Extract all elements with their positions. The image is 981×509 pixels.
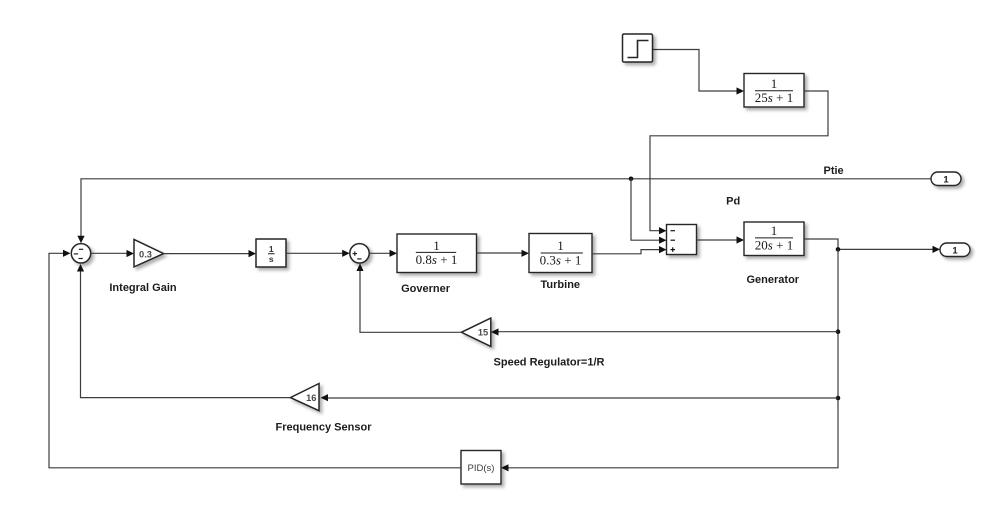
svg-text:Speed Regulator=1/R: Speed Regulator=1/R [494, 357, 605, 369]
svg-text:Ptie: Ptie [824, 165, 844, 177]
gain 0.3 Integral Gain [134, 239, 164, 267]
wire turbine to sum S3 plus port [592, 246, 667, 254]
wire gain 0.3 to integrator [164, 250, 256, 257]
svg-text:Governer: Governer [401, 283, 451, 295]
svg-text:1: 1 [771, 76, 778, 91]
wire integrator to sum S2 [286, 250, 350, 257]
wire generator to output oval 2 [804, 239, 940, 253]
output port Ptie oval 1 [931, 172, 961, 186]
label Governer [401, 283, 451, 295]
wire sum S1 to gain 0.3 [91, 250, 134, 257]
wire PID output to sum S1 left [49, 250, 461, 468]
svg-text:Frequency Sensor: Frequency Sensor [276, 422, 373, 434]
wire sum S3 to generator [697, 236, 745, 243]
wire Ptie line [77, 179, 931, 243]
svg-text:15: 15 [478, 328, 488, 338]
wire feedback vertical from generator output [501, 249, 838, 471]
sum junction S2 [350, 244, 369, 263]
label Generator [747, 274, 800, 286]
svg-text:1: 1 [433, 238, 440, 253]
label Frequency Sensor [276, 422, 373, 434]
svg-text:25s + 1: 25s + 1 [755, 90, 793, 105]
PID controller block [461, 451, 501, 485]
wire gain 16 to sum S1 bottom [77, 264, 291, 398]
svg-text:1: 1 [952, 246, 958, 257]
transfer function generator 1/(20s+1) [744, 222, 804, 256]
sum junction S1 [71, 244, 90, 263]
svg-text:0.3s + 1: 0.3s + 1 [540, 252, 582, 267]
label Turbine [541, 279, 581, 291]
gain 15 Speed Regulator [461, 318, 490, 346]
wire 25s+1 to sum top port [650, 91, 828, 234]
svg-text:PID(s): PID(s) [468, 463, 495, 474]
sum block S3 (rect with - - +) [667, 225, 697, 255]
node junction on Ptie line [629, 177, 634, 182]
gain 16 Frequency Sensor [290, 384, 319, 411]
wire step to 25s+1 [653, 50, 745, 95]
label Ptie [824, 165, 844, 177]
svg-text:s: s [269, 254, 274, 264]
node junction generator output [836, 247, 841, 252]
svg-text:1: 1 [771, 223, 778, 238]
transfer function governor 1/(0.8s+1) [397, 234, 477, 273]
wire Ptie junction to sum middle port [631, 179, 667, 244]
svg-text:1: 1 [269, 244, 274, 254]
svg-text:Generator: Generator [747, 274, 800, 286]
svg-text:Integral Gain: Integral Gain [109, 282, 177, 294]
wire to gain 15 [491, 328, 838, 335]
step source [623, 34, 653, 62]
transfer function turbine 1/(0.3s+1) [529, 234, 592, 273]
svg-text:20s + 1: 20s + 1 [755, 238, 793, 253]
svg-text:Pd: Pd [726, 196, 740, 208]
svg-text:0.8s + 1: 0.8s + 1 [416, 252, 458, 267]
output port oval 2 [940, 243, 970, 257]
svg-text:16: 16 [306, 393, 316, 403]
wire governor to turbine [477, 250, 530, 257]
label Integral Gain [109, 282, 177, 294]
label Pd [726, 196, 740, 208]
label Speed Regulator=1/R [494, 357, 605, 369]
svg-text:1: 1 [557, 238, 564, 253]
integrator 1/s [256, 239, 286, 267]
node junction frequency sensor tap [836, 396, 841, 401]
svg-text:1: 1 [943, 175, 949, 186]
wire sum S2 to governor [369, 250, 397, 257]
wire to gain 16 [321, 394, 839, 401]
transfer function 1/(25s+1) [744, 74, 804, 108]
wire gain 15 to sum S2 bottom [356, 264, 461, 333]
svg-text:0.3: 0.3 [139, 249, 152, 259]
node junction speed regulator tap [836, 329, 841, 334]
svg-text:Turbine: Turbine [541, 279, 581, 291]
